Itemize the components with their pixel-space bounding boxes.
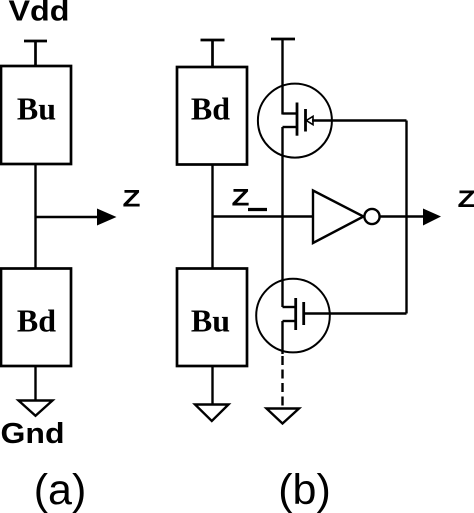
svg-text:Bd: Bd <box>17 303 56 339</box>
ground symbol (a) <box>19 401 53 416</box>
buffer Bu box (a) <box>1 66 71 164</box>
svg-text:Bd: Bd <box>191 91 230 127</box>
wire output Z (a) <box>36 216 101 218</box>
driver Bd box (a) <box>1 269 71 367</box>
svg-text:Z: Z <box>123 186 141 213</box>
wire Bd to node Z_ (b) <box>211 165 213 269</box>
inverter U1 triangle <box>313 191 364 244</box>
wire Bd to ground (a) <box>34 366 36 401</box>
svg-text:(a): (a) <box>34 466 87 513</box>
feedback wire inverter output to gates <box>405 121 407 314</box>
svg-text:(b): (b) <box>278 466 331 513</box>
arrow head Z (b) <box>423 209 441 226</box>
wire inverter output Z (b) <box>380 215 425 217</box>
power symbol Vdd (a) <box>24 41 47 66</box>
svg-text:Bu: Bu <box>17 91 56 127</box>
buffer Bu box (b) <box>177 269 247 367</box>
wire Q2 source (solid part) <box>281 321 283 354</box>
inverter U1 bubble <box>364 209 379 224</box>
svg-text:Z: Z <box>232 185 250 212</box>
Q1 gate arrow <box>306 116 313 124</box>
svg-text:Vdd: Vdd <box>9 0 70 28</box>
pass transistor Q1 (top) <box>258 84 332 158</box>
dashed wire Q2 source to ground <box>281 356 283 408</box>
ground symbol under Bu (b) <box>195 405 229 422</box>
wire Q1 source to Q2 drain <box>281 127 283 307</box>
wire Bu to ground (b) <box>211 366 213 405</box>
driver Bd box (b) <box>177 67 247 165</box>
power symbol Vdd above pass transistor Q1 <box>271 38 295 41</box>
wire Q2 gate to feedback <box>305 312 407 314</box>
arrow head Z (a) <box>97 209 117 226</box>
wire Q1 gate to feedback <box>312 119 407 121</box>
power symbol Vdd above Bd (b) <box>201 40 225 67</box>
ground symbol under Q2 <box>267 409 300 424</box>
wire Vdd to Q1 drain <box>281 39 283 115</box>
svg-text:Bu: Bu <box>191 303 230 339</box>
wire Bu to Bd (a) <box>34 164 36 269</box>
pass transistor Q2 (bottom) <box>256 279 330 353</box>
svg-text:Z: Z <box>458 186 474 213</box>
svg-text:Gnd: Gnd <box>1 418 65 450</box>
wire node Z_ to inverter input <box>213 215 315 217</box>
